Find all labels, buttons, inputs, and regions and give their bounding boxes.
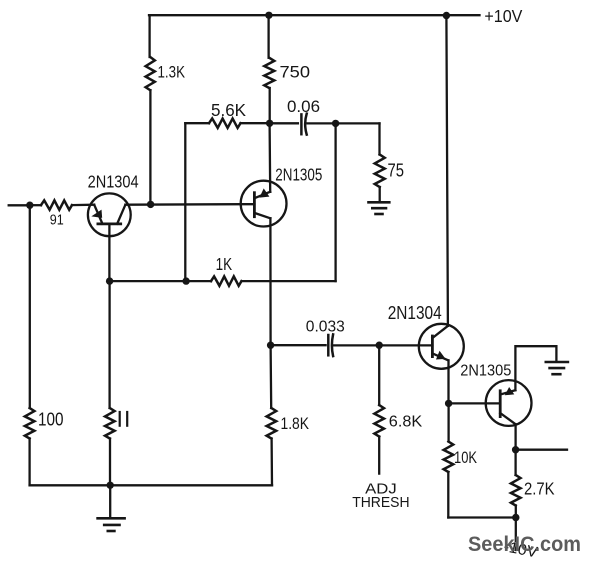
wire Q2 emitter riser	[268, 123, 271, 192]
svg-text:0.033: 0.033	[306, 318, 345, 335]
resistor 2.7K	[511, 475, 521, 506]
resistor 11	[105, 408, 115, 439]
wire 1K left lead	[109, 280, 211, 282]
wire Q3 emitter to Q4 base	[449, 402, 501, 404]
ground below 75	[369, 202, 390, 214]
resistor 91	[30, 204, 41, 206]
resistor 100	[25, 408, 35, 439]
label 11	[120, 412, 128, 426]
wire 750 top leg	[267, 15, 269, 58]
wire 2.7K top leg	[514, 450, 516, 475]
svg-text:2N1305: 2N1305	[275, 165, 322, 185]
wire input stub	[9, 204, 30, 206]
wire Q3 emitter drop	[447, 360, 449, 403]
wire output row	[516, 449, 567, 451]
wire 1.3K top leg	[148, 15, 150, 57]
svg-text:THRESH: THRESH	[352, 495, 409, 511]
wire 100 bottom leg	[28, 439, 30, 486]
ground Q4 emitter	[546, 362, 568, 374]
wire 75 bottom leg	[379, 187, 381, 202]
node Q2 collector / 1.8K / 0.033	[267, 342, 274, 349]
wire 10K top leg	[447, 403, 449, 441]
svg-text:91: 91	[50, 212, 64, 228]
transistor Q2 2N1305	[241, 181, 287, 227]
wire Q1 collector row to Q2 base	[125, 203, 240, 206]
wire 11 top leg	[108, 281, 110, 408]
resistor 5.6K	[209, 119, 241, 128]
wire 6.8K top leg	[378, 345, 380, 405]
wire drop x=336 to 1K row	[334, 123, 336, 281]
resistor 10K	[444, 442, 454, 473]
node 0.033 / 6.8K / Q3 base	[376, 342, 383, 349]
wire right collector riser to +10V	[446, 15, 448, 326]
node 10K / 2.7K / -10V	[512, 514, 519, 521]
svg-text:75: 75	[388, 160, 405, 180]
svg-text:2.7K: 2.7K	[524, 478, 555, 498]
wire 5.6K left lead	[185, 122, 209, 124]
node 1.3K / Q1 collector	[147, 201, 154, 208]
svg-text:1K: 1K	[216, 254, 233, 274]
wire 0.033 left lead	[271, 344, 326, 346]
capacitor 0.033	[328, 334, 333, 356]
wire 6.8K bottom open lead	[378, 437, 380, 474]
resistor 75	[375, 155, 385, 188]
wire top +10V rail	[149, 14, 480, 16]
svg-text:2N1304: 2N1304	[388, 302, 442, 323]
wire Q4 emitter riser to ground	[515, 346, 556, 390]
resistor 750	[264, 58, 274, 88]
wire 100 top leg	[29, 205, 31, 408]
svg-text:SeekIC.com: SeekIC.com	[468, 532, 581, 556]
wire 1K right lead	[242, 280, 336, 282]
wire -10V stub	[515, 518, 517, 551]
wire 0.06 left lead	[270, 122, 298, 124]
svg-text:2N1304: 2N1304	[88, 172, 139, 192]
capacitor 0.06	[301, 114, 306, 135]
wire 1.8K top leg	[269, 345, 272, 408]
wire 1.3K bottom leg	[149, 90, 151, 204]
svg-text:750: 750	[280, 64, 311, 82]
node Q3 emitter / 10K / Q4 base	[445, 400, 452, 407]
transistor Q3 2N1304	[419, 324, 464, 369]
wire 0.033 right lead to Q3 base	[334, 344, 433, 346]
transistor Q1 2N1304	[88, 193, 131, 236]
wire -10V bottom rail	[448, 516, 516, 518]
node Q4 collector / output / 2.7K	[512, 446, 519, 453]
node Q1 base / 1K / 11	[106, 277, 113, 284]
svg-text:5.6K: 5.6K	[211, 100, 246, 120]
wire Q2 collector drop	[269, 218, 272, 345]
svg-text:0.06: 0.06	[287, 97, 320, 116]
svg-text:6.8K: 6.8K	[389, 413, 423, 430]
node top rail / 750	[265, 12, 272, 19]
node 5.6K drop / 1K	[182, 277, 189, 284]
node input / 100	[26, 202, 33, 209]
svg-text:100: 100	[38, 409, 64, 430]
wire 11 bottom leg	[109, 439, 111, 486]
svg-text:2N1305: 2N1305	[460, 363, 511, 380]
node top rail / Q3 collector	[443, 12, 450, 19]
wire Q1 base drop	[108, 236, 110, 281]
wire 10K bottom leg	[447, 472, 449, 518]
svg-text:10K: 10K	[454, 448, 478, 467]
resistor 6.8K	[374, 405, 384, 437]
wire 5.6K right lead	[241, 122, 270, 124]
wire 1.8K bottom leg	[270, 439, 273, 486]
wire 750 bottom leg	[269, 88, 271, 123]
svg-text:1.8K: 1.8K	[281, 414, 310, 433]
ground bottom rail	[109, 485, 111, 518]
node 0.06 / 75 / 1K riser	[332, 120, 339, 127]
wire 0.06 right lead	[308, 122, 380, 124]
transistor Q4 2N1305	[486, 380, 532, 426]
wire bottom ground rail	[30, 484, 272, 486]
resistor 1.8K	[267, 408, 277, 439]
wire 75 top leg	[378, 123, 380, 154]
node ground rail / 11	[107, 482, 114, 489]
svg-text:1.3K: 1.3K	[158, 64, 186, 82]
node 750 / 5.6K / 0.06 / Q2 emitter	[266, 120, 273, 127]
wire 91 to Q1 emitter	[72, 204, 94, 207]
wire 2.7K bottom leg	[515, 506, 517, 518]
resistor 1.3K	[146, 57, 155, 90]
svg-text:+10V: +10V	[484, 6, 522, 26]
resistor 1K	[211, 276, 242, 285]
wire Q4 collector drop	[514, 424, 516, 449]
wire feedback drop x=185	[184, 123, 186, 281]
